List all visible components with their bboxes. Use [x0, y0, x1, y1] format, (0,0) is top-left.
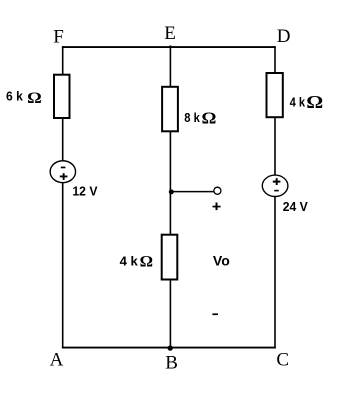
svg-text:A: A [50, 350, 64, 371]
wire top F-E-D [62, 46, 276, 48]
resistor 4k (right) [267, 73, 283, 117]
svg-text:4 k: 4 k [290, 95, 306, 110]
svg-text:F: F [53, 27, 64, 48]
resistor 6k (left) [54, 75, 70, 118]
svg-text:8 k: 8 k [184, 110, 200, 125]
svg-text:Vo: Vo [213, 252, 230, 268]
svg-text:D: D [277, 26, 291, 47]
svg-text:Ω: Ω [202, 108, 217, 127]
svg-text:E: E [164, 23, 176, 44]
source V2 24V [262, 175, 288, 196]
wire middle branch E-B [169, 45, 171, 348]
wire bottom A-B-C [62, 347, 276, 349]
label - (output polarity) [212, 313, 218, 315]
svg-text:Ω: Ω [27, 90, 42, 107]
junction dot node B [168, 345, 173, 350]
resistor 4k (middle lower) [162, 235, 178, 280]
wire right branch D-C [274, 46, 276, 348]
svg-text:C: C [276, 350, 289, 371]
svg-text:4 k: 4 k [120, 254, 139, 269]
resistor 8k (middle upper) [162, 87, 178, 132]
wire stub to output terminal [170, 191, 214, 193]
svg-text:12 V: 12 V [72, 183, 97, 198]
svg-text:6 k: 6 k [6, 89, 24, 104]
svg-text:Ω: Ω [140, 253, 154, 270]
svg-text:Ω: Ω [306, 92, 323, 112]
label + (output polarity) [213, 203, 221, 211]
source V1 12V [50, 161, 75, 183]
svg-text:24 V: 24 V [283, 199, 308, 214]
junction dot (node between 8k and 4k) [169, 189, 174, 194]
wire left branch F-A [62, 46, 64, 348]
output terminal (open circle) [214, 187, 221, 194]
svg-text:B: B [165, 353, 178, 374]
